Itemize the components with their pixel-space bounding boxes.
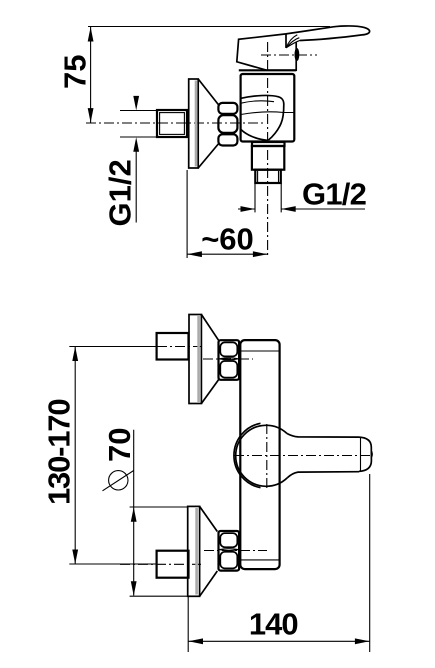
outlet hex block [252, 146, 284, 170]
ball joint back plate arc [234, 423, 261, 487]
handle pivot axis [261, 54, 317, 56]
wall nipple top (lower view) [157, 333, 189, 360]
outlet thread block [255, 170, 280, 183]
dim 70 ext lines [130, 506, 188, 508]
svg-text:140: 140 [249, 607, 298, 642]
escutcheon flange upper view [189, 79, 199, 168]
svg-text:130-170: 130-170 [42, 400, 77, 505]
dim 140 line [188, 640, 370, 642]
escutcheon cone top (lower view) [201, 315, 218, 341]
shower spout bottom edge [287, 472, 359, 478]
escutcheon flange bottom (lower view) [188, 506, 200, 596]
cartridge cap bottom edge [239, 69, 296, 71]
svg-text:G1/2: G1/2 [103, 159, 138, 226]
escutcheon cone upper view [198, 79, 218, 105]
dim 130-170 line [74, 347, 76, 565]
dim 130-170 bottom ext line [69, 563, 157, 565]
thread dim ext lines [120, 110, 157, 112]
outlet ext lines [254, 183, 256, 212]
svg-text:70: 70 [102, 428, 137, 462]
dim 140 right ext line [369, 474, 371, 652]
elbow bottom inner arc [241, 130, 268, 141]
spout horizontal axis [234, 455, 373, 457]
ball vertical axis [266, 424, 268, 490]
lever handle [286, 26, 370, 41]
wall nipple upper view [157, 110, 187, 137]
ball joint [236, 425, 288, 486]
nipple axis bottom [120, 563, 201, 565]
thread dim arrow down [133, 96, 139, 111]
union nut top (lower view) [219, 340, 240, 380]
dim 130-170 top ext line [69, 346, 157, 348]
thread dim arrow up with leader [133, 137, 139, 152]
svg-text:75: 75 [58, 55, 93, 89]
svg-text:G1/2: G1/2 [302, 176, 366, 211]
spout end cap [359, 437, 371, 471]
union nut upper view [218, 103, 237, 114]
escutcheon cone bottom (lower view) [200, 506, 218, 531]
dim 75 arrow down [88, 108, 94, 123]
center axis upper view [86, 122, 265, 124]
union nut bottom (lower view) [219, 531, 240, 571]
lever wedge hatch [285, 34, 287, 48]
inlet axis top [203, 358, 253, 360]
svg-text:~60: ~60 [201, 221, 254, 256]
shower spout top edge [287, 434, 359, 438]
mixer body column [240, 340, 279, 569]
outlet collar [252, 142, 285, 146]
mixer body upper view [241, 74, 295, 142]
dim 75 extension line at handle top [88, 26, 330, 28]
cartridge cap outline [237, 34, 296, 70]
wall nipple bottom (lower view) [157, 551, 189, 578]
dim 75 line [90, 27, 92, 123]
escutcheon flange top (lower view) [189, 315, 201, 404]
elbow mid contour [241, 112, 294, 115]
nipple axis top [157, 346, 201, 348]
pivot screw blob [295, 48, 300, 61]
diameter symbol [109, 471, 128, 490]
body vertical axis [267, 42, 269, 258]
dim 75 arrow up [88, 27, 94, 42]
dim ~60 line [187, 253, 268, 255]
elbow inner top line [241, 101, 274, 103]
elbow outer top and right curve [241, 95, 284, 140]
dim diameter 70 line [133, 430, 135, 596]
dim G1/2 bottom [238, 208, 255, 210]
inlet axis bottom [204, 550, 267, 552]
dim 140 left ext line [187, 597, 189, 652]
dim ~60 left ext line [186, 170, 188, 258]
